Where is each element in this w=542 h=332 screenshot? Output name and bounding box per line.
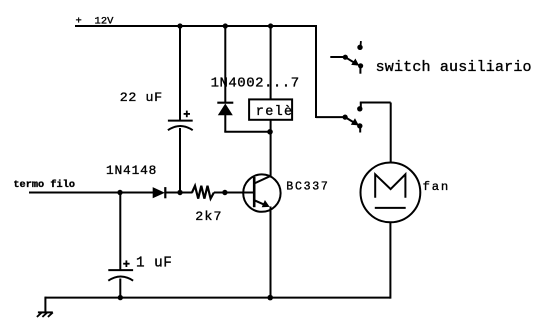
node input-1uF: [117, 190, 122, 195]
ground: [37, 312, 53, 317]
wire ground drop: [44, 297, 46, 313]
node rail-1N4002: [223, 23, 228, 28]
node rele-diode-collector: [267, 129, 273, 135]
capacitor C1 22uF: [168, 111, 193, 131]
node rail-22uF: [177, 23, 182, 28]
wire diode to rele node: [224, 131, 270, 133]
wire resistor to base: [214, 192, 254, 194]
wire ground rail: [45, 297, 390, 299]
motor M1 fan: [361, 163, 421, 223]
wire 1N4002 top lead: [224, 26, 226, 103]
wire switch S2 to fan: [360, 103, 391, 164]
relay U1 rele box: [249, 99, 292, 119]
wire emitter lead: [270, 207, 272, 298]
wire collector lead: [270, 132, 272, 176]
svg-text:BC337: BC337: [286, 180, 329, 193]
capacitor C2 1uF: [108, 260, 133, 280]
wire fan bottom lead: [389, 222, 391, 298]
svg-text:1 uF: 1 uF: [136, 255, 172, 271]
wire rele coil bottom lead: [270, 120, 272, 132]
wire right rail vertical: [315, 25, 317, 118]
svg-text:termo filo: termo filo: [13, 179, 75, 191]
node resistor-base: [222, 190, 227, 195]
svg-text:1N4002...7: 1N4002...7: [211, 75, 300, 91]
wire 1N4002 bottom lead: [224, 115, 226, 132]
svg-text:22 uF: 22 uF: [120, 90, 163, 105]
svg-text:switch ausiliario: switch ausiliario: [376, 59, 532, 76]
resistor R1 2k7: [192, 186, 214, 199]
svg-text:1N4148: 1N4148: [106, 163, 157, 178]
wire diode to resistor: [165, 192, 193, 194]
diode D2 1N4002: [217, 103, 233, 116]
node 22uF-main: [177, 190, 182, 195]
wire +12V top rail: [75, 25, 316, 27]
wire 22uF top lead: [179, 26, 181, 121]
node rail-rele: [268, 23, 273, 28]
wire 1uF bottom lead: [119, 279, 121, 298]
svg-text:fan: fan: [423, 180, 450, 194]
wire 22uF bottom lead: [179, 128, 181, 193]
wire rele coil top lead: [270, 26, 272, 99]
svg-text:2k7: 2k7: [195, 209, 223, 224]
wire input left: [29, 192, 154, 194]
diode D1 1N4148: [153, 187, 166, 198]
transistor Q1 BC337: [243, 174, 280, 211]
switch S1 ausiliario: [330, 41, 363, 74]
node 1uF-ground: [118, 295, 123, 300]
wire 1uF top lead: [119, 193, 121, 271]
switch S2 relay contact: [343, 106, 363, 132]
wire rail to switch S2: [316, 116, 345, 118]
svg-text:relè: relè: [256, 105, 294, 120]
node emitter-ground: [267, 295, 273, 301]
